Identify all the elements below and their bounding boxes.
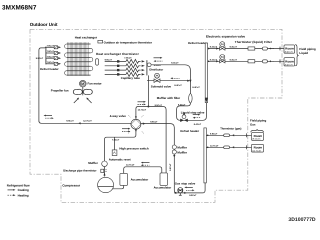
svg-text:6.4CuT: 6.4CuT [178, 103, 186, 106]
svg-text:12.7CuT: 12.7CuT [210, 144, 219, 147]
discharge pipe thermistor symbol [101, 169, 104, 172]
svg-text:6.4CuT: 6.4CuT [230, 46, 238, 49]
refnet header (left) branch 4 [46, 61, 61, 65]
svg-text:Electronic expansion valve: Electronic expansion valve [206, 34, 245, 38]
svg-text:7.9CuT: 7.9CuT [47, 44, 55, 47]
heat exchanger thermistor symbol [96, 59, 99, 65]
brace over gas rooms [251, 129, 264, 132]
svg-text:Muffler: Muffler [177, 150, 188, 154]
svg-text:Distributor: Distributor [149, 68, 163, 71]
svg-text:3MXM68N7: 3MXM68N7 [2, 4, 37, 11]
solenoid valve SV1 [147, 73, 190, 82]
svg-text:Propeller fan: Propeller fan [51, 89, 69, 93]
liquid branch A [208, 42, 284, 51]
wire: 4-way right to suction riser [141, 124, 177, 193]
svg-text:Compressor: Compressor [62, 183, 81, 187]
compressor CM1 [98, 177, 114, 192]
flow arrows on discharge horizontal [122, 128, 130, 133]
svg-text:6.4CuT: 6.4CuT [171, 62, 179, 65]
svg-text:12.7CuT: 12.7CuT [83, 120, 92, 123]
svg-text:Refrigerant flow: Refrigerant flow [7, 183, 31, 187]
heat exchanger HEX1 left U-bends [65, 44, 67, 75]
svg-text:9.5CuT: 9.5CuT [66, 120, 74, 123]
flow arrows at gas stop valve [184, 187, 194, 192]
svg-text:9.5CuT: 9.5CuT [105, 58, 113, 61]
svg-text:Liquid: Liquid [299, 51, 308, 55]
svg-text:Cooling: Cooling [18, 188, 29, 192]
svg-text:Accumulator: Accumulator [154, 186, 173, 190]
svg-text:Accumulator: Accumulator [131, 177, 150, 181]
wire: gas supply riser to left header [39, 47, 46, 122]
svg-text:9.5CuT: 9.5CuT [36, 57, 44, 60]
svg-text:Heating: Heating [18, 194, 29, 198]
outdoor unit boundary (dash-dot) [30, 29, 282, 202]
muffler M2 [172, 145, 176, 149]
svg-text:6.4CuT: 6.4CuT [230, 58, 238, 61]
distributor bar [146, 60, 148, 75]
svg-text:7.9CuT: 7.9CuT [47, 61, 55, 64]
liquid branch B [208, 55, 284, 64]
svg-text:Thermistor (gas): Thermistor (gas) [220, 127, 241, 130]
refnet header (liquid) body [205, 43, 207, 103]
wire: liquid line distributor to riser [151, 65, 190, 94]
svg-text:Thermistor (liquid) Filter: Thermistor (liquid) Filter [235, 40, 273, 44]
svg-text:(6.4CuT): (6.4CuT) [285, 51, 293, 54]
svg-text:9.5CuT: 9.5CuT [210, 132, 218, 135]
legend cooling arrow [8, 189, 14, 191]
flow arrow down on riser [189, 80, 191, 83]
svg-text:Muffler with filter: Muffler with filter [157, 96, 181, 100]
svg-text:Gas stop valve: Gas stop valve [175, 181, 196, 185]
svg-text:9.5CuT: 9.5CuT [150, 120, 158, 123]
svg-text:Refnet header: Refnet header [40, 67, 60, 71]
svg-text:M: M [81, 82, 84, 86]
svg-text:6.4CuT: 6.4CuT [174, 84, 182, 87]
outdoor air temperature thermistor symbol [98, 40, 103, 43]
accumulator ACC1 [120, 173, 128, 185]
room box gas A [252, 133, 264, 141]
gas branch A [206, 132, 251, 137]
svg-text:Room: Room [254, 134, 263, 138]
svg-text:12.7CuT: 12.7CuT [126, 164, 135, 167]
svg-text:12.7CuT: 12.7CuT [138, 109, 147, 112]
svg-text:Solenoid valve: Solenoid valve [151, 84, 172, 88]
liquid stop valve V1 [180, 113, 188, 122]
capillary C2 [105, 64, 145, 68]
svg-text:Gas: Gas [250, 123, 256, 127]
room box liquid A [284, 45, 295, 54]
svg-text:7.9CuT: 7.9CuT [47, 50, 55, 53]
wire: distributor drop [147, 75, 149, 106]
svg-text:Refnet header: Refnet header [180, 129, 200, 133]
liquid stop valve V1 loop [177, 103, 207, 121]
svg-text:Discharge pipe thermistor: Discharge pipe thermistor [63, 169, 96, 172]
room box liquid B [284, 58, 295, 67]
capillary C3 [105, 68, 145, 72]
capillary C1 [105, 59, 145, 63]
svg-text:4-way valve: 4-way valve [110, 114, 126, 118]
refnet header (left) bar [45, 47, 47, 65]
svg-text:Heat exchanger thermistor: Heat exchanger thermistor [96, 52, 140, 56]
brace for field piping liquid [295, 45, 298, 66]
svg-text:Room: Room [254, 146, 263, 150]
refnet header (left) branch 2 [46, 50, 61, 54]
heat exchanger HEX1 right U-bends [91, 48, 93, 70]
svg-text:Muffler: Muffler [88, 161, 99, 165]
svg-text:Muffler: Muffler [177, 145, 188, 149]
svg-text:Outdoor Unit: Outdoor Unit [30, 22, 58, 27]
capillary C4 [105, 72, 145, 76]
wire: acc1 to compressor suction [112, 185, 124, 188]
distributor symbol [147, 63, 151, 67]
svg-text:9.5CuT: 9.5CuT [169, 163, 172, 171]
gas branch B [206, 144, 251, 149]
muffler with filter symbol (lens) [189, 93, 192, 103]
svg-text:Refnet header: Refnet header [188, 41, 208, 45]
wire: compressor discharge line [105, 130, 136, 176]
refnet header (gas) body [204, 128, 206, 183]
wire: acc1-acc2 top pipe [124, 167, 162, 174]
svg-text:Heat exchanger: Heat exchanger [75, 36, 98, 40]
svg-text:Fan motor: Fan motor [88, 81, 103, 85]
high pressure switch S1PH [114, 137, 116, 150]
svg-text:6.4CuT: 6.4CuT [194, 123, 202, 126]
svg-text:3D100777D: 3D100777D [288, 217, 316, 223]
muffler M4 on discharge [102, 161, 108, 167]
svg-text:Room: Room [285, 59, 294, 63]
svg-text:Automatic reset: Automatic reset [109, 157, 131, 161]
wire: gas header to gas stop valve [174, 183, 205, 193]
svg-text:9.5CuT: 9.5CuT [155, 104, 163, 107]
refnet header (liquid) bottom arrow [205, 98, 208, 103]
legend heating arrow [8, 194, 14, 196]
refnet header (left) branch 3 [46, 55, 61, 59]
svg-text:Room: Room [285, 47, 294, 51]
svg-text:9.5CuT: 9.5CuT [189, 194, 197, 197]
svg-text:Outdoor air temperature thermi: Outdoor air temperature thermistor [104, 40, 153, 44]
airflow arrow right [87, 99, 91, 103]
svg-text:6.4CuT: 6.4CuT [192, 86, 200, 89]
flow arrows at distributor [154, 57, 163, 62]
room box gas B [252, 144, 264, 152]
discharge flow arrow [103, 173, 105, 176]
svg-text:(6.4CuT): (6.4CuT) [285, 63, 293, 66]
4-way valve V4 [128, 115, 144, 133]
flow arrows on bypass [138, 101, 146, 105]
propeller fan blades [73, 87, 92, 95]
svg-text:(9.5CuT): (9.5CuT) [252, 138, 260, 141]
muffler M3 [172, 150, 176, 154]
svg-text:7.9CuT: 7.9CuT [47, 55, 55, 58]
svg-text:7.9CuT: 7.9CuT [112, 139, 120, 142]
fan motor M1 [80, 80, 87, 87]
gas stop valve V2 [174, 188, 187, 196]
flow arrows at liquid stop valve [193, 114, 201, 119]
svg-text:High pressure switch: High pressure switch [119, 146, 148, 150]
wire: bypass line 4-way top to riser [136, 107, 166, 173]
flow arrows on left pipe [44, 115, 54, 120]
refnet header (left) branch 1 [46, 44, 61, 48]
heat exchanger HEX1 fins [68, 42, 89, 76]
flow arrows on top pipe [141, 162, 150, 166]
heat exchanger HEX1 tube rows [67, 44, 91, 75]
wire: 4-way to left header pipe [39, 121, 131, 123]
airflow arrow left [74, 99, 78, 103]
svg-text:(12.7CuT): (12.7CuT) [252, 149, 261, 152]
junction node at distributor drop [147, 106, 149, 108]
accumulator ACC2 [160, 173, 168, 186]
